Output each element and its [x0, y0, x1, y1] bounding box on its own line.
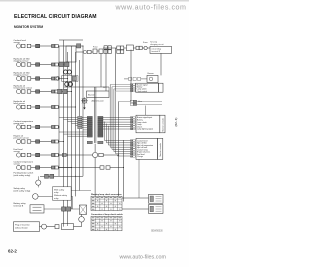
connector: [139, 46, 142, 49]
connector: [106, 166, 110, 169]
svg-text:Buzzer: Buzzer: [148, 73, 155, 75]
wire fan to monitor console: [103, 85, 130, 156]
sensor row 7: Engine oil: [14, 135, 65, 143]
fusible link: [144, 46, 147, 49]
monitor console box B: [130, 138, 162, 159]
alternator connector: [99, 153, 103, 156]
bus wire x75.5: [75, 52, 77, 196]
sensor row 8: Fuel level: [14, 149, 69, 157]
monitor console box A: [130, 115, 165, 133]
connector: [117, 46, 120, 50]
wire to table area: [64, 190, 92, 192]
svg-text:(with safety relay): (with safety relay): [14, 174, 31, 177]
bus cap wire: [59, 39, 83, 41]
bus wire x59: [58, 46, 60, 176]
wire: [81, 222, 83, 227]
svg-text:Plug of machine: Plug of machine: [15, 225, 31, 227]
connector: [104, 50, 107, 54]
alternator circle: [93, 152, 98, 157]
wire keyswitch to fuse row: [76, 51, 83, 53]
table: warning lamp check connection: [91, 193, 122, 211]
alarm buzzer symbol: [81, 97, 88, 104]
page top scan edge: [0, 0, 189, 2]
svg-text:www.auto-files.com: www.auto-files.com: [115, 4, 187, 12]
sensor row 4: Hydraulic oil: [14, 85, 73, 93]
plug box label: [14, 222, 40, 232]
wire plug to comp: [47, 226, 56, 228]
svg-text:Horn: Horn: [138, 101, 142, 103]
svg-text:terminal B: terminal B: [14, 205, 24, 208]
battery circle: [79, 217, 85, 223]
wire: [93, 87, 95, 143]
glow plug circle: [42, 224, 47, 229]
svg-text:www.auto-files.com: www.auto-files.com: [119, 255, 167, 261]
buzzer component right: [124, 73, 158, 82]
svg-text:pressure sensor: pressure sensor: [14, 138, 30, 140]
svg-text:Lamp lighting signal: Lamp lighting signal: [137, 128, 153, 131]
vertical to table zone: [94, 158, 96, 196]
svg-text:charging circuit: charging circuit: [150, 43, 164, 46]
key switch box: [66, 46, 76, 62]
connector: [120, 50, 123, 53]
wire: [97, 50, 99, 52]
svg-text:Warning lamp check connection: Warning lamp check connection: [91, 193, 122, 196]
bus wire x71.5: [71, 46, 73, 209]
bus wire x67.5: [67, 52, 69, 224]
connector: [55, 225, 59, 229]
battery relay row: [14, 202, 80, 213]
row4 relay boxes: [58, 89, 62, 93]
charge line left: [58, 154, 92, 156]
sensor row 2: Hydraulic oil filter: [14, 57, 65, 66]
connector bottom row: [87, 141, 103, 144]
connector: [108, 50, 111, 54]
wire: [110, 167, 124, 169]
wire table to lamp box E: [122, 208, 149, 210]
svg-text:Check switch: Check switch: [137, 90, 148, 93]
lamp check box D: [149, 194, 164, 203]
sensor row 1: Coolant level: [14, 39, 84, 48]
coolant temp line: [58, 167, 100, 169]
long vertical right: [115, 48, 117, 91]
connector: [108, 46, 111, 50]
fuse F1: [93, 49, 97, 53]
svg-text:SEW00530: SEW00530: [151, 231, 163, 233]
parking brake switch row: [14, 172, 84, 188]
svg-text:Connection of lamp check switc: Connection of lamp check switch: [91, 213, 123, 216]
svg-text:ELECTRICAL CIRCUIT DIAGRAM: ELECTRICAL CIRCUIT DIAGRAM: [14, 14, 97, 20]
svg-text:With safety: With safety: [54, 188, 65, 191]
svg-text:(with safety relay): (with safety relay): [14, 189, 31, 192]
relay cluster: [56, 62, 78, 86]
charging circuit box: [150, 46, 172, 53]
wire: [133, 47, 136, 49]
safety relay row: [14, 187, 73, 209]
svg-text:terminal R: terminal R: [152, 50, 161, 53]
svg-text:62-2: 62-2: [8, 249, 17, 254]
wire table to lamp box D: [122, 197, 149, 199]
stub: [67, 224, 69, 226]
row1 aux box: [77, 44, 81, 48]
svg-text:Alarm buzzer: Alarm buzzer: [92, 100, 105, 103]
sensor row 3: Hydraulic oil filter: [14, 71, 69, 80]
svg-text:temperature sensor: temperature sensor: [14, 87, 33, 90]
svg-text:Charge: Charge: [137, 156, 143, 158]
vertical box B to lamp box D: [138, 159, 140, 198]
connector on charge line: [63, 153, 67, 156]
sensor row 6: Coolant temperature: [14, 120, 60, 129]
fuse F2: [99, 49, 103, 53]
buzzer box: [87, 91, 110, 98]
sensor row 9: Coolant temperature: [14, 160, 73, 169]
charge line right: [103, 154, 118, 156]
wire: [91, 51, 93, 53]
wire: [95, 87, 97, 143]
svg-text:clogging sensor: clogging sensor: [14, 75, 29, 77]
svg-text:Monitor console: Monitor console: [159, 143, 162, 156]
svg-text:Without safety: Without safety: [54, 194, 68, 197]
vertical to buzzer box: [105, 48, 107, 91]
vertical to table 1: [118, 102, 120, 197]
wire connector to alternator: [94, 144, 96, 153]
buzzer diode: [83, 108, 85, 110]
junction: [118, 154, 119, 155]
connector: [120, 46, 123, 50]
row3 aux box: [72, 76, 76, 80]
connector: [88, 50, 92, 53]
wire to battery: [74, 226, 82, 228]
connector: [117, 50, 120, 53]
vertical fuse to buzzer: [100, 53, 102, 87]
connector: [136, 46, 139, 49]
svg-text:clogging sensor: clogging sensor: [14, 61, 29, 63]
heater relay box: [62, 224, 74, 230]
wire: [40, 226, 42, 228]
safety relay: [80, 205, 87, 214]
vertical charging to buzzer2: [160, 53, 162, 75]
wire fuse row to right: [103, 47, 117, 49]
wire: [147, 47, 150, 49]
monitor relay box C: [110, 83, 163, 93]
connector pin stacks: [59, 116, 103, 137]
svg-text:without heater: without heater: [15, 227, 28, 230]
connector: [104, 46, 107, 50]
bus wire x83: [82, 46, 84, 176]
vertical right column: [130, 50, 132, 102]
svg-text:(62- 3): (62- 3): [174, 118, 178, 127]
bus wire x79.5: [79, 60, 81, 191]
wire: [142, 47, 144, 49]
buzzer ground wire: [84, 104, 86, 107]
table: lamp check connection 2: [91, 213, 123, 231]
svg-text:Monitor console: Monitor console: [162, 118, 165, 131]
svg-text:Buzzer: Buzzer: [88, 94, 95, 97]
wire to buzzer top: [64, 86, 109, 88]
horn row connectors: [119, 100, 163, 115]
aux connector column: [78, 116, 82, 128]
buzzer top drop: [108, 87, 110, 91]
note box with safety relay: [53, 187, 72, 200]
connector: [100, 166, 104, 169]
junction: [123, 167, 124, 168]
sensor row 5: Hydraulic oil: [14, 101, 77, 109]
wire: [124, 47, 127, 49]
bus wire x63.5: [63, 40, 65, 227]
small circle comp: [83, 50, 86, 53]
lamp check box E: [149, 205, 164, 214]
relay box: [126, 45, 133, 51]
wire: [81, 214, 83, 216]
vertical to table 2: [123, 140, 125, 202]
svg-text:circuit relay: circuit relay: [152, 47, 162, 50]
svg-text:MONITOR SYSTEM: MONITOR SYSTEM: [14, 25, 43, 29]
